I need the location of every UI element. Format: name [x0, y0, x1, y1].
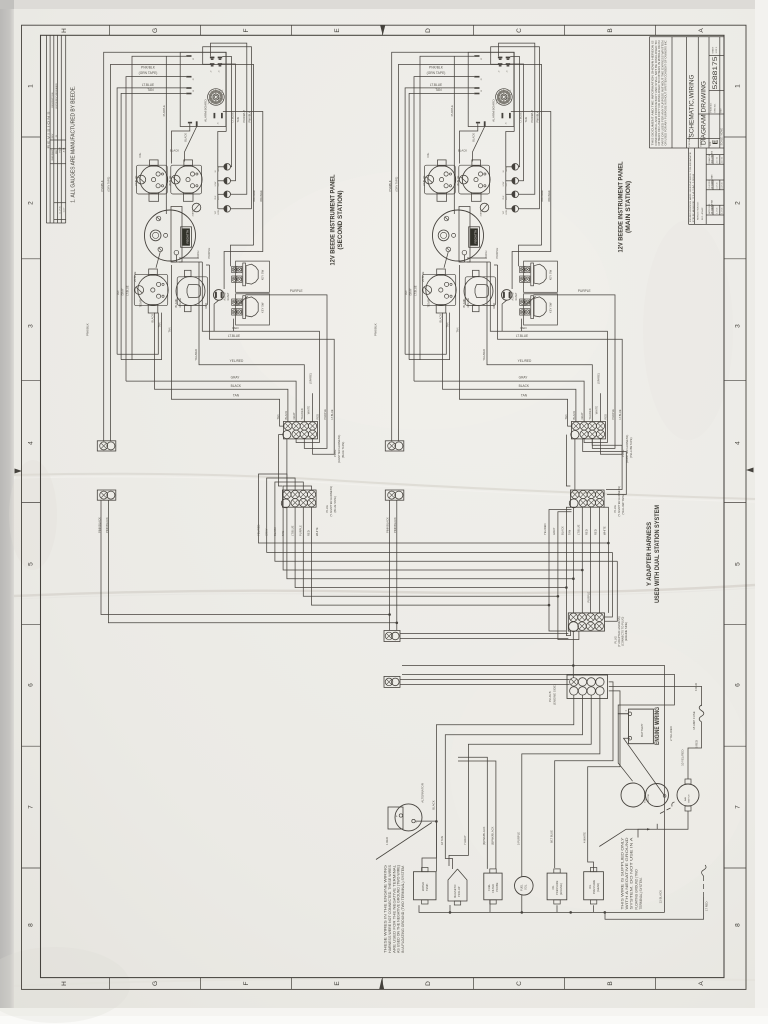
wire RED keysw drop (main station)	[520, 319, 522, 332]
svg-text:4-17-95: 4-17-95	[722, 157, 724, 163]
svg-text:LT.BLUE: LT.BLUE	[414, 285, 418, 295]
wire bundle 4 to pin J5 (second station)	[132, 56, 186, 359]
wire bundle to temp gauge link 1 (second station)	[117, 313, 158, 355]
svg-text:TERMINAL) SYSTEM.: TERMINAL) SYSTEM.	[639, 877, 643, 909]
note this wire supplied	[621, 836, 643, 909]
junction dots Y harness joins	[548, 542, 610, 607]
pushbutton ALARM RESET (main station)	[501, 290, 512, 301]
alarm board box (second station)	[180, 52, 226, 126]
connector pair sender plug (second station)	[97, 441, 116, 451]
svg-text:24 BLUE: 24 BLUE	[422, 175, 426, 186]
svg-text:OIL: OIL	[426, 152, 430, 157]
svg-text:PER ASME Y14.5M-1994: PER ASME Y14.5M-1994	[692, 172, 695, 222]
wire GRAY to plug A (main station)	[414, 381, 584, 421]
svg-text:WHITE: WHITE	[594, 406, 598, 415]
svg-text:26 BLUE: 26 BLUE	[168, 175, 172, 186]
svg-text:4-17-95: 4-17-95	[717, 208, 719, 214]
svg-text:H: H	[61, 981, 68, 986]
wire PNK/BLK pair run 1 (second station)	[104, 52, 227, 441]
svg-text:J2: J2	[211, 71, 213, 73]
svg-text:YEL/RED: YEL/RED	[588, 408, 592, 419]
svg-text:W E O'BRIEN: W E O'BRIEN	[711, 150, 713, 163]
svg-text:BLACK: BLACK	[273, 527, 277, 536]
plug A panel-side connector (main station)	[571, 422, 606, 439]
svg-text:ALTERNATOR: ALTERNATOR	[421, 782, 425, 803]
plug B engine side connector	[567, 675, 608, 699]
svg-text:LT.BLUE: LT.BLUE	[230, 112, 234, 123]
svg-text:YEL/RED: YEL/RED	[518, 359, 532, 363]
wire pigtail starter	[660, 808, 671, 814]
wire pair B to plug E	[400, 679, 570, 681]
svg-text:(Y ADAPTER HARNESS): (Y ADAPTER HARNESS)	[329, 486, 333, 517]
title block main	[650, 37, 725, 148]
svg-text:TAN: TAN	[281, 531, 285, 536]
wire RED to plug A (second station)	[202, 262, 319, 443]
svg-text:CHKD: CHKD	[52, 155, 54, 161]
wire bundle 2 left feed (main station)	[409, 93, 474, 359]
svg-text:2 YEL/RED: 2 YEL/RED	[669, 726, 673, 741]
svg-text:ORANGE: ORANGE	[252, 190, 256, 202]
svg-text:GRAY: GRAY	[519, 376, 529, 380]
svg-text:SCALE: NONE: SCALE: NONE	[720, 128, 724, 146]
svg-text:4 WHITE: 4 WHITE	[583, 832, 587, 843]
svg-text:(8)PNK/BLACK: (8)PNK/BLACK	[482, 826, 486, 845]
svg-text:SYSTEM. DO NOT USE IN A: SYSTEM. DO NOT USE IN A	[630, 836, 634, 909]
labels engine wire gauges	[440, 826, 586, 845]
wire ORANGE 2 (second station)	[223, 112, 263, 290]
svg-text:GRAY: GRAY	[580, 412, 584, 419]
fuse 4 AMP (main station)	[480, 203, 489, 212]
svg-text:TEMP: TEMP	[139, 299, 143, 307]
wire GRAY bus (Y harness)	[267, 478, 613, 552]
lamp VOLTS (main station)	[512, 206, 519, 213]
wire LT.BLUE lamp (main station)	[510, 57, 519, 167]
svg-text:1. ALL GAUGES ARE MANUFACTURE: 1. ALL GAUGES ARE MANUFACTURED BY BEEDE.	[71, 86, 77, 203]
wire battery positive jog	[618, 714, 632, 781]
svg-text:B: B	[607, 28, 614, 32]
wire 6 RED to bal switch	[688, 722, 702, 779]
junction dots ground bus	[449, 911, 452, 914]
wires lamp left terminals (main station)	[506, 167, 512, 209]
svg-text:PURPLE: PURPLE	[290, 289, 303, 293]
svg-text:PNK/BLK: PNK/BLK	[536, 111, 540, 123]
plug D Y-harness engine side	[568, 613, 604, 632]
svg-text:PURPLE: PURPLE	[611, 409, 615, 420]
label plug Y blue tape	[325, 486, 337, 517]
sensor WATER TEMP	[414, 868, 437, 905]
svg-text:(SPARE): (SPARE)	[308, 373, 312, 384]
svg-text:B: B	[607, 981, 614, 985]
wire PURPLE bus (Y harness)	[295, 507, 566, 587]
svg-text:REGATTA: REGATTA	[474, 230, 477, 244]
svg-text:PICK-UP: PICK-UP	[457, 886, 461, 897]
wire BLACK to plug A (second station)	[155, 313, 288, 422]
label plug A (main station)	[621, 435, 633, 463]
wire ORANGE 2 (main station)	[511, 112, 551, 290]
wire plug A1 to plug B housing link	[286, 439, 288, 490]
svg-text:4-17-95: 4-17-95	[717, 182, 719, 188]
svg-text:1 RED: 1 RED	[385, 837, 389, 845]
wire PURPLE tach riser (main station)	[453, 56, 455, 214]
svg-text:(Y ADAPTER HARNESS): (Y ADAPTER HARNESS)	[617, 616, 621, 647]
svg-text:5: 5	[28, 562, 35, 566]
wire keysw2 to purple diag (main station)	[525, 296, 536, 305]
svg-text:24 BLUE: 24 BLUE	[134, 175, 138, 186]
svg-text:(GRN TAPE): (GRN TAPE)	[139, 71, 158, 75]
wire PNK/BLK pair run 2 (second station)	[110, 65, 253, 441]
key switch 2 (second station)	[232, 294, 270, 325]
svg-text:F: F	[243, 28, 250, 32]
svg-text:6: 6	[735, 683, 742, 687]
gauge TEMP (main station)	[422, 269, 456, 313]
svg-text:4-17-95: 4-17-95	[722, 208, 724, 214]
svg-text:YEL/RED: YEL/RED	[257, 524, 261, 536]
svg-text:FSCM NO.: FSCM NO.	[711, 102, 713, 112]
wire bal switch ground	[657, 811, 688, 829]
svg-text:WATER: WATER	[421, 882, 425, 891]
svg-text:RED: RED	[315, 414, 319, 420]
wire alternator output	[415, 820, 436, 822]
svg-text:(MAIN STATION): (MAIN STATION)	[625, 181, 632, 233]
svg-text:BLANK: BLANK	[462, 298, 466, 307]
svg-text:RESET: RESET	[515, 292, 518, 301]
svg-text:FLOATING GROUND (TWO: FLOATING GROUND (TWO	[634, 869, 638, 910]
key switch 1 (second station)	[232, 261, 270, 292]
svg-text:DRAWN BY: DRAWN BY	[708, 153, 711, 163]
svg-text:DIMENSIONS ARE MM/INCHES TOLER: DIMENSIONS ARE MM/INCHES TOLERANCE	[689, 151, 692, 222]
wire PURPLE under-wrap (main station)	[592, 422, 615, 449]
wire bundle 4 to pin J5 (main station)	[420, 56, 474, 359]
svg-text:MOTOR: MOTOR	[648, 793, 650, 802]
svg-text:REGATTA: REGATTA	[186, 230, 189, 244]
wire WHITE bus (Y harness)	[312, 507, 550, 605]
label FUEL FILTER PROBE	[487, 882, 499, 892]
svg-text:24 BLUE: 24 BLUE	[133, 271, 137, 282]
svg-text:PRESSURE: PRESSURE	[555, 880, 559, 895]
alarm board piezo (main station)	[496, 89, 513, 106]
svg-text:F: F	[243, 981, 250, 985]
svg-text:PURPLE: PURPLE	[298, 525, 302, 536]
svg-text:TEMP: TEMP	[427, 299, 431, 307]
pushbutton ALARM RESET (second station)	[213, 290, 224, 301]
wire TAN bus (Y harness)	[283, 486, 582, 570]
svg-text:KEY SW: KEY SW	[261, 302, 265, 313]
wire PURPLE to plug A (second station)	[246, 295, 328, 422]
wire PURPLE under-wrap (second station)	[304, 422, 327, 449]
connector pair engine feed B	[384, 676, 400, 687]
wire tach to temp link (main station)	[444, 252, 448, 268]
wire battery negative to starter	[624, 738, 665, 796]
svg-text:LOW: LOW	[503, 182, 505, 187]
svg-text:RED: RED	[307, 530, 311, 536]
svg-text:WHITE: WHITE	[306, 406, 310, 415]
svg-text:(ADAPTER HARNESS): (ADAPTER HARNESS)	[337, 435, 341, 463]
svg-text:BLACK: BLACK	[458, 148, 467, 152]
svg-text:RED: RED	[520, 326, 527, 330]
svg-text:(ENGINE SIDE): (ENGINE SIDE)	[552, 684, 556, 705]
svg-text:Y ADAPTER HARNESS: Y ADAPTER HARNESS	[646, 522, 653, 586]
wire plug C wrap left 3	[566, 507, 571, 635]
svg-text:WHITE: WHITE	[315, 527, 319, 536]
wire alarm to fuel gauge (main station)	[473, 127, 485, 162]
label PLUG B (ENGINE SIDE)	[548, 684, 556, 705]
junction dots pnk/blk joins	[388, 613, 391, 616]
svg-text:4 AMP: 4 AMP	[192, 210, 195, 217]
connector pair engine feed A	[384, 631, 400, 642]
svg-text:PINK/BLACK: PINK/BLACK	[393, 517, 397, 533]
svg-text:BLACK: BLACK	[561, 526, 565, 535]
wire plug C col1 drop	[572, 507, 574, 613]
svg-text:TAN: TAN	[233, 394, 240, 398]
border zone ticks rows	[22, 137, 747, 868]
svg-text:APPROVED: APPROVED	[708, 203, 711, 214]
fuse 4 AMP (second station)	[192, 203, 201, 212]
svg-text:TAN: TAN	[524, 117, 528, 122]
svg-text:J4: J4	[506, 71, 508, 73]
svg-text:KEY SW: KEY SW	[549, 302, 553, 313]
wire 7 GRAY sensor run	[449, 695, 591, 866]
gauge FUEL (main station)	[459, 160, 490, 201]
wire bundle 1 left feed (main station)	[405, 88, 474, 354]
svg-text:ORANGE: ORANGE	[540, 190, 544, 202]
svg-text:(SPARE): (SPARE)	[596, 373, 600, 384]
connector pins J1-J4 (second station)	[186, 55, 223, 126]
svg-text:8: 8	[28, 923, 35, 927]
tachometer (main station)	[433, 207, 484, 263]
svg-text:PROBE: PROBE	[495, 882, 499, 891]
svg-text:THESE WIRES IN THE ENGINE WIRI: THESE WIRES IN THE ENGINE WIRING	[384, 864, 388, 953]
label WATER TEMP	[421, 882, 429, 891]
svg-text:4 RED: 4 RED	[694, 683, 698, 691]
bal switch	[677, 779, 699, 811]
svg-text:1 OF 1: 1 OF 1	[716, 46, 718, 53]
wire RED reset drop (second station)	[214, 300, 219, 331]
svg-text:(YELLOW TAPE): (YELLOW TAPE)	[621, 494, 625, 515]
svg-text:3: 3	[735, 324, 742, 328]
svg-text:TAN: TAN	[521, 394, 528, 398]
wire plug C wrap left 1	[549, 510, 572, 632]
wire 5 PURPLE sensor run	[522, 695, 600, 876]
svg-text:8: 8	[735, 923, 742, 927]
svg-text:TAN: TAN	[116, 290, 120, 295]
wire loop PUR/WHT (main station)	[499, 43, 535, 194]
alarm board box (main station)	[468, 52, 514, 126]
lamp CHECK ENG (second station)	[224, 191, 231, 198]
wire PURPLE to plug A (main station)	[534, 295, 616, 422]
svg-text:YEL/RED: YEL/RED	[300, 408, 304, 419]
blank gauge (second station)	[176, 270, 208, 311]
label OIL PRESSURE ENGINE	[551, 880, 563, 895]
svg-text:TAN: TAN	[158, 322, 162, 327]
svg-text:TAN: TAN	[456, 327, 460, 332]
wire 1 RED diagonal	[376, 823, 432, 860]
border centering arrow top	[380, 26, 385, 36]
svg-text:TEMP: TEMP	[218, 166, 220, 172]
svg-text:ENGINE WIRING: ENGINE WIRING	[654, 707, 661, 745]
wire lamp feed bus (main station)	[506, 132, 514, 209]
wire PNK/BLACK pickup pair	[458, 757, 487, 869]
label plug Y yellow tape	[613, 486, 625, 517]
svg-text:18 AMP FUSE: 18 AMP FUSE	[692, 711, 696, 730]
svg-text:ARE USED FOR THE NEGATIVE TERM: ARE USED FOR THE NEGATIVE TERMINAL	[392, 865, 396, 953]
wire ground diagonal	[599, 829, 626, 846]
svg-text:TEMP: TEMP	[506, 166, 508, 172]
svg-text:G: G	[152, 981, 159, 986]
svg-text:E: E	[334, 981, 341, 986]
svg-text:YEL/RED: YEL/RED	[482, 349, 486, 361]
wire TAN to plug A (main station)	[459, 265, 571, 426]
svg-text:R.E.B: R.E.B	[60, 147, 62, 153]
svg-text:4: 4	[28, 441, 35, 445]
svg-text:ORANGE: ORANGE	[547, 190, 551, 202]
svg-text:5: 5	[735, 562, 742, 566]
svg-text:1: 1	[28, 84, 35, 88]
wire bus 12BLACK top run	[402, 666, 665, 913]
svg-text:FUEL: FUEL	[487, 884, 491, 891]
alarm board piezo (second station)	[208, 89, 225, 106]
wire PNK/BLK pair run 1 (main station)	[392, 52, 515, 441]
svg-text:IN A FLOATING GROUND (TWO TERM: IN A FLOATING GROUND (TWO TERMINAL) SYST…	[401, 865, 405, 953]
wire tach stubs (second station)	[179, 257, 199, 259]
svg-text:PNK/BLK: PNK/BLK	[248, 111, 252, 123]
wire RED to plug A (main station)	[490, 262, 607, 443]
svg-text:OR USED FOR ANY PURPOSE WITHOU: OR USED FOR ANY PURPOSE WITHOUT WRITTEN …	[665, 40, 668, 145]
svg-text:2: 2	[735, 201, 742, 205]
starting motor	[621, 783, 669, 807]
svg-text:RED: RED	[232, 326, 239, 330]
top connector pins (main station)	[498, 57, 510, 67]
fuse 18 AMP	[699, 705, 704, 722]
svg-text:GAUGE: GAUGE	[466, 298, 470, 308]
svg-text:5288175: 5288175	[712, 56, 719, 89]
wire plug C col4 drop	[598, 507, 600, 613]
wire WHITE spare stub (main station)	[599, 393, 601, 421]
wire RED bus (Y harness)	[303, 507, 558, 596]
svg-text:BLACK: BLACK	[170, 148, 179, 152]
svg-text:G: G	[152, 28, 159, 33]
svg-text:WITH A NEGATIVE GROUND: WITH A NEGATIVE GROUND	[625, 836, 629, 909]
svg-text:CHK: CHK	[215, 195, 217, 200]
svg-text:12 BLACK: 12 BLACK	[659, 890, 663, 904]
svg-text:BLACK: BLACK	[151, 314, 155, 323]
svg-text:BLACK: BLACK	[472, 133, 476, 142]
svg-text:PNK/BLK: PNK/BLK	[374, 323, 378, 336]
svg-text:TAN: TAN	[147, 88, 154, 92]
svg-text:TACH: TACH	[484, 251, 488, 259]
connector pair sender plug (main station)	[385, 441, 404, 451]
svg-text:LT.BLUE: LT.BLUE	[142, 83, 154, 87]
wire plug C col3 drop	[590, 507, 592, 613]
wire 16 BLACK sensor run	[422, 695, 574, 872]
svg-text:LT.BLUE: LT.BLUE	[228, 334, 240, 338]
svg-text:YEL/RED: YEL/RED	[230, 359, 244, 363]
wire YEL/RED to plug A (main station)	[487, 262, 592, 422]
svg-text:BLACK: BLACK	[231, 384, 242, 388]
border zone letters H-A	[61, 28, 705, 986]
svg-text:24 BLUE: 24 BLUE	[421, 271, 425, 282]
svg-text:(YELLOW TAPE): (YELLOW TAPE)	[629, 437, 633, 458]
wire alarm to fuel gauge (second station)	[185, 127, 197, 162]
svg-text:LT.BLUE: LT.BLUE	[618, 409, 622, 419]
svg-text:PURPLE: PURPLE	[162, 105, 166, 116]
note engine wires	[384, 864, 406, 953]
svg-text:(SECOND STATION): (SECOND STATION)	[337, 190, 344, 249]
svg-text:17 RED: 17 RED	[705, 902, 709, 911]
wires lamp left terminals (second station)	[218, 167, 224, 209]
wire plug D to plug E tap	[572, 631, 574, 665]
svg-text:(GEAR): (GEAR)	[596, 883, 600, 892]
wire 4 RED feed	[609, 686, 702, 706]
wire ORANGE 1 (main station)	[519, 245, 542, 266]
svg-text:PRESSURE: PRESSURE	[592, 880, 596, 895]
svg-text:TAN: TAN	[276, 414, 280, 419]
svg-text:4 AMP: 4 AMP	[480, 210, 483, 217]
svg-text:10 YEL/RED: 10 YEL/RED	[680, 750, 684, 766]
svg-text:TAN: TAN	[404, 290, 408, 295]
svg-text:THIS WIRE IS SUPPLIED ONLY: THIS WIRE IS SUPPLIED ONLY	[621, 836, 625, 909]
svg-text:ALARM BOARD: ALARM BOARD	[492, 99, 496, 122]
svg-text:PURPLE: PURPLE	[207, 248, 211, 259]
sign-off block	[689, 148, 724, 224]
labels Y harness colors right	[543, 523, 606, 535]
wire lamp feed bus (second station)	[218, 132, 226, 209]
key switch 1 (main station)	[520, 261, 558, 292]
svg-text:SHEET: SHEET	[713, 46, 715, 53]
svg-text:PINK/BLACK: PINK/BLACK	[386, 517, 390, 533]
wire loop PUR/WHT (second station)	[211, 43, 247, 194]
wire GRAY to plug A (second station)	[126, 381, 296, 421]
wire pair A to plug D	[400, 633, 568, 635]
svg-text:+: +	[625, 709, 627, 713]
connector pair harness side (second station)	[97, 490, 116, 500]
svg-text:GRAY: GRAY	[121, 288, 125, 295]
wire plug C col2 drop	[581, 507, 583, 613]
svg-text:ORANGE: ORANGE	[259, 190, 263, 202]
svg-text:A.T.A: A.T.A	[62, 147, 65, 152]
svg-text:GRAY: GRAY	[231, 376, 241, 380]
wire 4 WHITE sensor run	[588, 691, 620, 872]
svg-text:(GRN TAPE): (GRN TAPE)	[395, 177, 399, 192]
gauge OIL (main station)	[424, 160, 455, 201]
svg-text:LT.BLUE: LT.BLUE	[518, 112, 522, 123]
label plug D	[613, 616, 628, 647]
labels plug A wire colors (main station)	[564, 406, 622, 420]
plug A panel-side connector (second station)	[283, 422, 318, 439]
svg-text:D: D	[425, 981, 432, 986]
svg-text:KEY SW: KEY SW	[549, 269, 553, 280]
svg-text:PURPLE: PURPLE	[495, 248, 499, 259]
wire BLACK gauge link (main station)	[460, 123, 478, 163]
svg-text:WHITE: WHITE	[603, 526, 607, 535]
lamp VOLTS (second station)	[224, 206, 231, 213]
svg-text:PNK/BLK: PNK/BLK	[100, 180, 104, 191]
svg-text:PNK/BLK: PNK/BLK	[86, 323, 90, 336]
labels Y harness bus colors left	[257, 524, 319, 536]
wire PURPLE tach riser (second station)	[165, 56, 167, 214]
svg-text:W T ABRAHAM: W T ABRAHAM	[710, 174, 713, 188]
svg-text:6 RED: 6 RED	[694, 740, 698, 748]
wire oil eng ground tap	[570, 911, 572, 913]
svg-text:RED: RED	[594, 529, 598, 535]
svg-text:HARNESS WERE NOT CONNECTED. TH: HARNESS WERE NOT CONNECTED. THESE WIRES	[388, 865, 392, 953]
svg-text:RED: RED	[603, 414, 607, 420]
sensor OIL PRESSURE ENGINE	[547, 869, 567, 904]
svg-text:C: C	[516, 28, 523, 33]
svg-text:R E V I S I O N S: R E V I S I O N S	[47, 112, 51, 149]
svg-text:PURPLE: PURPLE	[323, 409, 327, 420]
svg-text:LT.BLUE: LT.BLUE	[126, 285, 130, 295]
sensor OIL PRESSURE GEAR	[584, 868, 604, 905]
